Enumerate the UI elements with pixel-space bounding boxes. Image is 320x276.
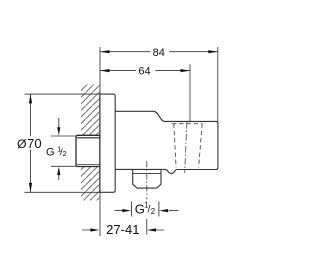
svg-text:64: 64 (138, 65, 150, 77)
svg-text:70: 70 (27, 136, 41, 151)
svg-text:84: 84 (153, 47, 165, 59)
svg-text:G: G (46, 147, 55, 159)
svg-text:27-41: 27-41 (106, 222, 139, 237)
svg-text:2: 2 (63, 149, 67, 158)
svg-text:2: 2 (151, 207, 155, 216)
svg-text:Ø: Ø (17, 137, 27, 151)
